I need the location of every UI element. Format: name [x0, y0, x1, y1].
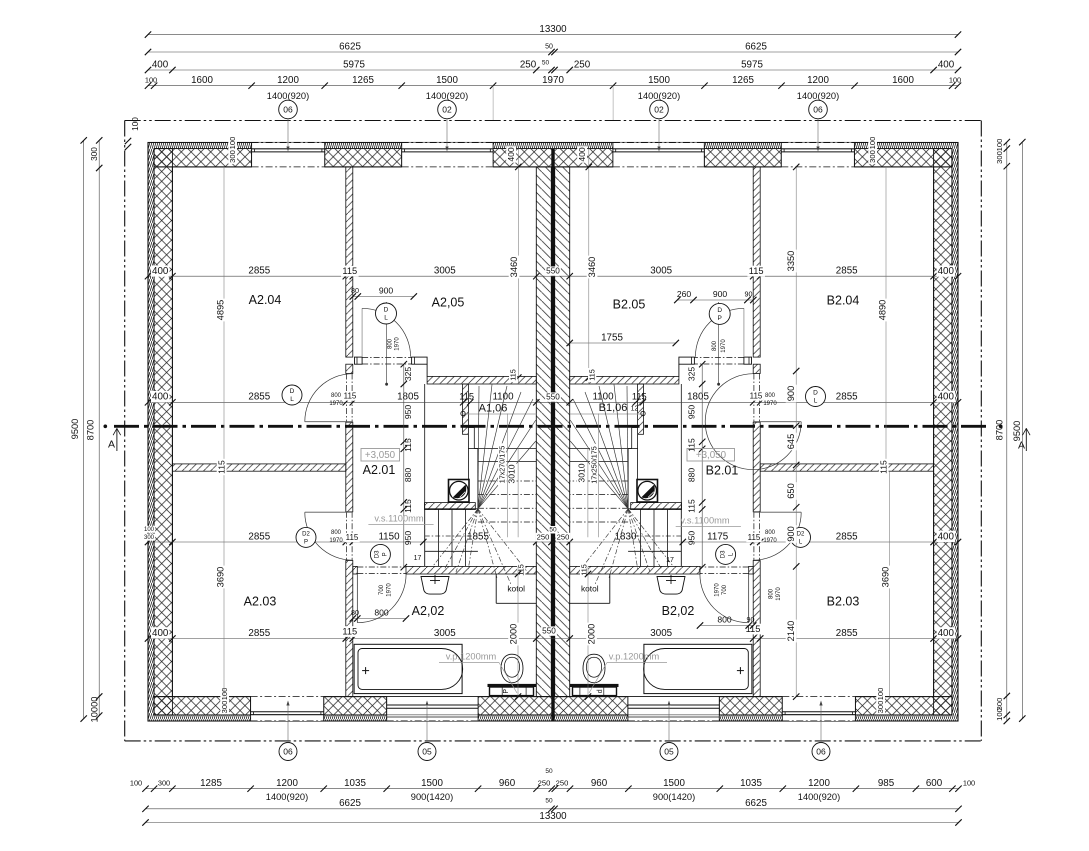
svg-text:17: 17 — [414, 555, 422, 562]
exterior wall structure bottom segment — [719, 697, 782, 715]
R3 50 label — [536, 533, 551, 542]
svg-text:400: 400 — [506, 147, 516, 162]
svg-text:B2.03: B2.03 — [827, 594, 860, 608]
svg-text:v.s.1100mm: v.s.1100mm — [680, 515, 730, 525]
door D2 leaf+arc (B2.03) — [753, 511, 801, 513]
party wall left leaf — [536, 167, 551, 697]
stair length dims rotated — [498, 443, 506, 485]
svg-text:A: A — [108, 438, 115, 450]
stair mid-landing edge (A) — [463, 413, 537, 415]
x2.05 door dim left — [353, 296, 414, 298]
svg-text:05: 05 — [664, 746, 674, 756]
svg-text:D: D — [384, 307, 389, 314]
svg-text:6625: 6625 — [745, 798, 767, 809]
stair above-cut dash-dot rays (B) — [628, 509, 673, 566]
svg-text:A2,05: A2,05 — [432, 295, 465, 309]
section line A-A — [114, 425, 991, 428]
svg-text:90: 90 — [747, 615, 755, 624]
exterior wall insulation strip top segment — [325, 143, 402, 149]
svg-text:115: 115 — [403, 499, 413, 513]
svg-text:17x250/175: 17x250/175 — [589, 446, 598, 484]
svg-text:1970: 1970 — [763, 401, 777, 407]
svg-text:1970: 1970 — [329, 401, 343, 407]
exterior wall structure top segment — [854, 149, 952, 167]
stairwell edge lines (A) — [424, 384, 426, 509]
svg-text:250: 250 — [520, 59, 537, 70]
svg-text:12: 12 — [631, 405, 639, 412]
door leaf+arc (A2.05) — [361, 308, 363, 357]
svg-text:1175: 1175 — [707, 531, 729, 542]
svg-text:3690: 3690 — [880, 567, 890, 588]
exterior wall insulation strip top segment — [493, 143, 613, 149]
svg-text:3005: 3005 — [434, 628, 456, 639]
svg-text:1600: 1600 — [892, 75, 914, 86]
svg-text:400: 400 — [152, 628, 169, 639]
stair A1.06 spine wall — [463, 384, 469, 434]
svg-text:50: 50 — [545, 798, 553, 805]
bath door dim left — [353, 618, 406, 620]
level marker +3,050 left — [361, 449, 400, 462]
bottom wall layer mini-dims left — [220, 687, 229, 702]
svg-text:B2,02: B2,02 — [662, 604, 695, 618]
svg-text:100: 100 — [876, 688, 885, 701]
svg-text:80: 80 — [351, 608, 359, 617]
svg-text:115: 115 — [346, 533, 359, 542]
door D opening dash-dot (A) — [346, 374, 348, 423]
svg-text:645: 645 — [786, 434, 796, 450]
x2.05 door dim right — [677, 299, 753, 301]
svg-text:10000: 10000 — [89, 697, 99, 723]
svg-text:100: 100 — [145, 75, 157, 84]
svg-text:2000: 2000 — [586, 624, 596, 645]
right wall layer mini-dims — [868, 136, 877, 151]
stair winder rays (A) — [478, 386, 479, 509]
svg-text:L: L — [384, 315, 388, 322]
wash basin (B2.02) — [657, 577, 685, 595]
svg-text:115: 115 — [686, 438, 696, 452]
A2.05 doorway wall piece — [412, 357, 428, 364]
svg-text:kotol: kotol — [581, 584, 599, 594]
door D2 opening dash-dot (A) — [346, 512, 348, 561]
A2.05 doorway jamb block — [355, 357, 363, 364]
svg-text:300: 300 — [868, 150, 877, 163]
R1 115 labels — [341, 266, 359, 277]
door D2 opening dash-dot (B) — [758, 512, 760, 561]
svg-text:D: D — [717, 307, 722, 314]
door D leaf+arc (B2.04) — [753, 421, 801, 423]
svg-text:A2.04: A2.04 — [249, 293, 282, 307]
svg-text:3350: 3350 — [786, 251, 796, 272]
svg-text:50: 50 — [549, 527, 557, 534]
svg-text:100: 100 — [220, 688, 229, 701]
svg-text:L: L — [290, 396, 294, 403]
top dim row 400/5975/250 — [148, 69, 958, 71]
svg-text:115: 115 — [749, 266, 764, 276]
svg-text:700: 700 — [379, 584, 385, 595]
exterior wall insulation strip right — [952, 143, 958, 722]
svg-text:3005: 3005 — [650, 628, 672, 639]
window opening top 1 — [252, 143, 325, 167]
door tag circle D2/P — [296, 527, 316, 547]
dim row R4 — [148, 638, 958, 640]
svg-text:250: 250 — [556, 779, 569, 788]
svg-text:02: 02 — [654, 104, 664, 114]
svg-text:2140: 2140 — [786, 621, 796, 642]
svg-text:100: 100 — [228, 137, 237, 150]
stair mid-landing edge (B) — [570, 413, 644, 415]
exterior wall insulation strip top segment — [854, 143, 952, 149]
svg-text:3005: 3005 — [650, 266, 672, 277]
svg-text:D: D — [290, 388, 295, 395]
svg-text:v.p.1200mm: v.p.1200mm — [446, 651, 497, 661]
bathroom B2.02 wall segment — [749, 566, 754, 574]
svg-text:5975: 5975 — [741, 59, 763, 70]
svg-text:1035: 1035 — [344, 778, 366, 789]
svg-text:6625: 6625 — [339, 41, 361, 52]
svg-text:880: 880 — [403, 468, 413, 483]
svg-text:900: 900 — [713, 289, 728, 299]
svg-text:2855: 2855 — [836, 628, 858, 639]
svg-text:400: 400 — [938, 628, 955, 639]
bathroom A2.02 wall segment — [353, 566, 358, 574]
svg-text:115: 115 — [508, 369, 517, 380]
top window tag circle (06) — [809, 100, 828, 119]
svg-text:800: 800 — [388, 338, 394, 349]
door tag circle D/L right — [806, 387, 826, 407]
partition B2.03|B2.02 wall — [753, 561, 760, 697]
svg-text:90: 90 — [745, 290, 753, 299]
svg-text:1265: 1265 — [352, 75, 374, 86]
svg-text:05: 05 — [422, 746, 432, 756]
svg-text:B2.01: B2.01 — [706, 463, 739, 477]
svg-text:P: P — [383, 552, 389, 556]
svg-text:1400(920): 1400(920) — [797, 91, 839, 101]
svg-text:100: 100 — [144, 527, 155, 533]
svg-text:2855: 2855 — [248, 628, 270, 639]
svg-text:4890: 4890 — [877, 300, 887, 321]
insulation interface lines — [154, 148, 952, 150]
svg-text:1400(920): 1400(920) — [266, 792, 308, 802]
interior face line bottom — [154, 696, 251, 698]
door D opening dash-dot (B) — [758, 374, 760, 423]
dim row R1 — [148, 275, 958, 277]
exterior wall insulation strip bottom segment — [855, 715, 952, 721]
svg-text:100: 100 — [868, 137, 877, 150]
svg-text:1500: 1500 — [421, 778, 443, 789]
svg-text:d: d — [597, 689, 604, 693]
115 dims at bath party — [517, 563, 525, 577]
door D3 opening dash-dot (A) — [357, 566, 406, 568]
svg-text:80: 80 — [351, 286, 359, 295]
svg-text:2855: 2855 — [248, 392, 270, 403]
svg-text:1805: 1805 — [397, 392, 419, 403]
bottom window tag circle (05) — [660, 743, 678, 761]
svg-text:325: 325 — [686, 367, 696, 382]
svg-text:B2.04: B2.04 — [827, 293, 860, 307]
partition A2.03|A2.02 wall — [346, 561, 353, 697]
svg-text:1400(920): 1400(920) — [638, 91, 680, 101]
svg-text:325: 325 — [403, 367, 413, 382]
partition A2.04|A2.03 wall — [172, 464, 345, 471]
svg-text:115: 115 — [403, 438, 413, 452]
bottom window tag circle (06) — [279, 743, 297, 761]
x2.05 door axis line right — [718, 302, 720, 384]
svg-text:115: 115 — [459, 392, 474, 402]
exterior wall insulation strip bottom segment — [478, 715, 628, 721]
top window tag circle (06) — [279, 100, 298, 119]
level marker +3,050 right — [687, 449, 735, 462]
svg-text:50: 50 — [545, 768, 553, 775]
bathroom B2.02 wall segment2 — [570, 566, 700, 574]
svg-text:17: 17 — [666, 557, 674, 564]
svg-text:400: 400 — [152, 266, 169, 277]
svg-text:115: 115 — [344, 392, 357, 401]
x2.05 door axis line left — [386, 302, 388, 384]
svg-text:06: 06 — [816, 746, 826, 756]
stair B1.06 landing wall — [631, 503, 682, 510]
svg-text:1600: 1600 — [191, 75, 213, 86]
svg-text:1200: 1200 — [277, 75, 299, 86]
exterior wall insulation strip top segment — [704, 143, 781, 149]
svg-text:300: 300 — [158, 778, 170, 787]
terrace door opening bottom (05) 1 — [387, 697, 478, 721]
svg-text:P: P — [718, 315, 722, 322]
window opening top 2 — [402, 143, 493, 167]
door D3 opening dash-dot (B) — [700, 566, 749, 568]
left dim 9500 — [83, 140, 85, 718]
svg-text:300: 300 — [144, 535, 155, 541]
svg-text:D3: D3 — [375, 550, 381, 558]
svg-text:9500: 9500 — [70, 419, 80, 440]
stair shaft symbol (B) — [637, 480, 658, 503]
partition B2.04|B2.01 wall — [753, 422, 760, 512]
R1 550 label — [545, 266, 561, 275]
svg-text:300: 300 — [876, 701, 885, 714]
exterior wall outer face outline — [148, 143, 958, 722]
A2.05 nook step edge — [426, 364, 428, 376]
svg-text:250: 250 — [557, 533, 570, 542]
witness lines top center — [492, 86, 494, 120]
svg-text:1970: 1970 — [542, 75, 564, 86]
window opening top 4 — [781, 143, 854, 167]
B2.05 1755 dim — [570, 342, 676, 344]
svg-text:50: 50 — [545, 44, 553, 51]
room height dim 4895/3690 left — [223, 167, 225, 464]
svg-text:v.s.1100mm: v.s.1100mm — [374, 513, 424, 523]
svg-text:800: 800 — [765, 393, 776, 399]
door tag circle x2.05 left — [376, 303, 397, 324]
svg-text:400: 400 — [938, 266, 955, 277]
svg-text:A1,06: A1,06 — [479, 402, 508, 414]
partition wall stub below B2.05 doorway — [753, 364, 760, 373]
3010 stair witness lines — [507, 414, 509, 538]
bath tub (B2.02) — [644, 644, 752, 693]
door tag circle D3 left — [370, 544, 390, 564]
R2 550 label — [545, 392, 561, 401]
exterior wall structure left — [154, 149, 172, 715]
stair lower flight treads (A) — [438, 509, 440, 567]
svg-text:P: P — [304, 540, 308, 546]
svg-text:1970: 1970 — [395, 337, 401, 351]
svg-text:2855: 2855 — [836, 531, 858, 542]
svg-text:06: 06 — [813, 104, 823, 114]
svg-text:115: 115 — [878, 460, 888, 474]
svg-text:100: 100 — [995, 139, 1004, 152]
svg-text:950: 950 — [686, 531, 696, 546]
top dim row segment widths — [148, 85, 958, 87]
svg-text:300: 300 — [90, 147, 99, 161]
interior face line top — [154, 166, 252, 168]
bottom dim row B — [146, 808, 959, 810]
terrace door opening bottom (05) 2 — [628, 697, 719, 721]
svg-text:v.p.1200mm: v.p.1200mm — [609, 651, 660, 661]
R3 left wall 100/300 minis — [143, 526, 155, 533]
svg-text:700: 700 — [722, 584, 728, 595]
stair B1.06 spine wall — [638, 384, 644, 434]
bath tub (A2.02) — [354, 644, 462, 693]
svg-text:400: 400 — [152, 59, 169, 70]
svg-text:115: 115 — [750, 392, 763, 401]
partition wall stub below A2.05 doorway — [346, 364, 353, 373]
bottom dim row C 13300 — [146, 822, 959, 824]
svg-text:3690: 3690 — [215, 567, 225, 588]
stair A1.06 landing wall — [425, 503, 476, 510]
3350/900/645/650/900/2140 dim column right — [795, 167, 797, 697]
toilet (A2.02) — [488, 684, 537, 687]
party wall right leaf — [555, 167, 570, 697]
svg-text:400: 400 — [938, 59, 955, 70]
exterior wall structure bottom segment — [478, 697, 628, 715]
svg-text:2855: 2855 — [836, 266, 858, 277]
stairwell edge lines (B) — [680, 384, 682, 509]
svg-text:550: 550 — [546, 393, 560, 402]
svg-text:1830: 1830 — [615, 531, 637, 542]
B2.05 doorway dash-dot lines — [694, 356, 744, 358]
svg-text:+3,050: +3,050 — [696, 450, 727, 461]
dim row R3 — [148, 541, 958, 543]
400 labels on top wall center — [506, 146, 516, 162]
svg-text:100: 100 — [130, 778, 142, 787]
svg-text:800: 800 — [712, 340, 718, 351]
svg-text:800: 800 — [769, 588, 775, 599]
R4 400 label masks — [151, 627, 170, 638]
svg-text:800: 800 — [717, 615, 732, 625]
kotol boiler niche (B) — [609, 574, 611, 603]
stair lower flight treads (B) — [667, 509, 669, 567]
svg-text:260: 260 — [677, 289, 692, 299]
svg-text:250: 250 — [538, 779, 551, 788]
exterior wall structure bottom segment — [855, 697, 952, 715]
exterior wall insulation strip bottom segment — [154, 715, 251, 721]
svg-text:B2.05: B2.05 — [613, 297, 646, 311]
svg-text:1035: 1035 — [740, 778, 762, 789]
window opening bottom (06) 1 — [251, 697, 324, 721]
svg-text:06: 06 — [283, 746, 293, 756]
svg-text:1200: 1200 — [808, 778, 830, 789]
svg-text:300: 300 — [220, 701, 229, 714]
bottom dim row A — [146, 788, 959, 790]
stair B1.06 top wall — [570, 376, 679, 384]
svg-text:A2.01: A2.01 — [363, 463, 396, 477]
svg-text:1400(920): 1400(920) — [267, 91, 309, 101]
svg-text:800: 800 — [765, 530, 776, 536]
svg-text:06: 06 — [283, 104, 293, 114]
svg-text:D2: D2 — [302, 532, 310, 538]
svg-text:+3,050: +3,050 — [365, 450, 396, 461]
svg-text:1970: 1970 — [715, 583, 721, 597]
door D2 leaf+arc (A2.03) — [305, 511, 353, 513]
svg-text:3005: 3005 — [434, 266, 456, 277]
exterior wall insulation strip left — [148, 143, 154, 722]
svg-text:3460: 3460 — [509, 257, 519, 278]
svg-text:1500: 1500 — [648, 75, 670, 86]
R1 400 label masks — [151, 265, 170, 276]
svg-text:1400(920): 1400(920) — [798, 792, 840, 802]
exterior wall insulation strip bottom segment — [719, 715, 782, 721]
115 labels on partition A/B 2.04|2.03 — [217, 459, 227, 475]
R4 550 label — [541, 626, 557, 635]
toilet (B2.02) — [570, 684, 619, 687]
3460 dims at party wall — [517, 149, 519, 384]
svg-text:1200: 1200 — [807, 75, 829, 86]
window opening top 3 — [613, 143, 704, 167]
window opening bottom (06) 2 — [782, 697, 855, 721]
svg-text:100: 100 — [963, 778, 975, 787]
svg-text:1970: 1970 — [329, 538, 343, 544]
svg-text:800: 800 — [331, 393, 342, 399]
stair upper flight treads (A) — [474, 448, 536, 450]
stair above-cut dash-dot rays (A) — [433, 509, 478, 566]
exterior wall insulation strip bottom segment — [324, 715, 387, 721]
right dim 9500 — [1021, 142, 1023, 719]
svg-text:3010: 3010 — [576, 463, 586, 482]
R4 115 labels — [341, 626, 359, 637]
svg-text:950: 950 — [686, 405, 696, 420]
svg-text:650: 650 — [786, 483, 796, 499]
svg-text:6625: 6625 — [339, 798, 361, 809]
svg-text:P: P — [503, 689, 510, 694]
door D leaf+arc (A2.04) — [305, 421, 353, 423]
room height dim 4890/3690 right — [885, 167, 887, 464]
door D3 leaf+arc (A2.02) — [356, 574, 358, 623]
R2 400 label masks — [151, 391, 170, 402]
svg-text:880: 880 — [686, 468, 696, 483]
door tag circle D/L — [282, 385, 302, 405]
stair A1.06 top wall — [427, 376, 536, 384]
interior face line right — [933, 167, 935, 697]
svg-text:250: 250 — [537, 533, 550, 542]
svg-text:300: 300 — [995, 151, 1004, 164]
svg-text:13300: 13300 — [539, 811, 567, 822]
svg-text:115: 115 — [342, 626, 357, 636]
svg-text:1970: 1970 — [387, 583, 393, 597]
svg-text:300: 300 — [228, 150, 237, 163]
115 dims at stair top party — [509, 368, 517, 382]
svg-text:2855: 2855 — [248, 266, 270, 277]
partition A2.04|A2.01 wall — [346, 422, 353, 512]
svg-text:100: 100 — [949, 75, 961, 84]
A2.05 doorway dash-dot lines — [362, 356, 412, 358]
svg-text:1265: 1265 — [732, 75, 754, 86]
svg-text:115: 115 — [579, 564, 588, 575]
svg-text:kotol: kotol — [507, 584, 525, 594]
svg-text:115: 115 — [216, 460, 226, 474]
dim row R2 — [148, 401, 958, 403]
exterior wall structure bottom segment — [324, 697, 387, 715]
top dim row 6625/50/6625 — [148, 51, 958, 53]
svg-text:50: 50 — [542, 60, 550, 67]
stair shaft symbol (A) — [449, 480, 470, 503]
